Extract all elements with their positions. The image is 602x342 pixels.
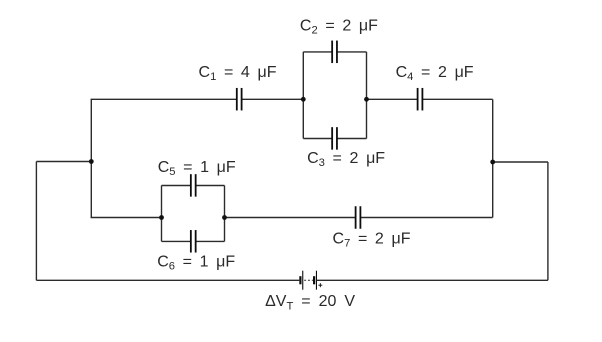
wire top branch: C2/C3 box to C4	[367, 98, 418, 100]
wire top branch: left node to C1	[91, 98, 237, 100]
node junction dot C5/C6 box right	[222, 215, 227, 220]
wire right inner vertical	[492, 99, 494, 217]
node junction dot C5/C6 box left	[159, 215, 164, 220]
battery plus sign	[318, 284, 322, 286]
wire C2/C3 box top side (gap at C2)	[303, 51, 332, 53]
wire top branch: C1 to C2/C3 box	[242, 98, 304, 100]
wire C2/C3 box bottom side (gap at C3)	[303, 138, 332, 140]
wire left inner vertical	[90, 99, 92, 217]
node junction dot C2/C3 box left	[301, 97, 306, 102]
capacitor C1 plates	[236, 88, 238, 111]
wire middle branch: C7 to right vertical	[360, 217, 492, 219]
capacitor C6 plates	[190, 230, 192, 253]
wire C2/C3 box right side	[366, 52, 368, 139]
wire left branch to outer rail	[36, 161, 91, 163]
wire left outer vertical rail	[35, 162, 37, 281]
node junction dot C2/C3 box right	[364, 97, 369, 102]
wire C2/C3 box left side	[302, 52, 304, 139]
wire top branch: C4 to right corner	[422, 98, 492, 100]
wire middle branch: left vertical to C5/C6 box	[91, 217, 162, 219]
wire C5/C6 box top side (gap at C5)	[162, 185, 191, 187]
wire bottom rail left of battery	[36, 279, 299, 281]
wire right branch to outer rail	[493, 161, 548, 163]
battery cell 2 short plate	[313, 276, 315, 284]
battery cell 2 long plate	[316, 271, 317, 290]
wire right outer vertical rail	[547, 162, 549, 280]
capacitor C2 plates	[331, 41, 333, 64]
wire C5/C6 box bottom side (gap at C6)	[162, 240, 191, 242]
wire C5/C6 box left side	[161, 186, 163, 242]
capacitor C5 plates	[190, 174, 192, 197]
capacitor C3 plates	[331, 127, 333, 149]
capacitor C7 plates	[355, 206, 357, 229]
wire C5/C6 box right side	[224, 186, 226, 242]
node junction dot right rail branch	[490, 160, 495, 165]
battery cell 1 long plate	[302, 271, 303, 290]
wire bottom rail right of battery	[317, 279, 548, 281]
battery dashed link	[304, 279, 313, 281]
battery cell 1 short plate	[299, 276, 301, 284]
node junction dot left rail branch	[89, 159, 94, 164]
capacitor C4 plates	[417, 88, 419, 111]
wire middle branch: C5/C6 box to C7	[225, 217, 356, 219]
svg-text:ΔVT = 20 V: ΔVT = 20 V	[265, 293, 355, 313]
